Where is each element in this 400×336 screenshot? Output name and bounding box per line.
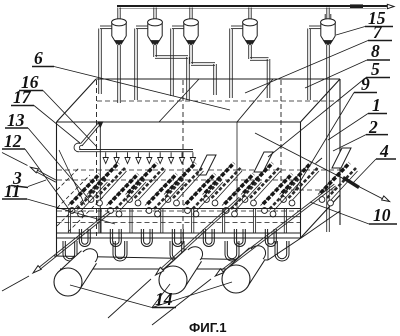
svg-text:9: 9 [361,74,370,94]
svg-text:13: 13 [7,110,25,130]
svg-text:8: 8 [371,41,380,61]
svg-text:5: 5 [371,59,380,79]
svg-text:6: 6 [34,48,43,68]
svg-text:10: 10 [373,205,391,225]
svg-text:17: 17 [13,87,32,107]
svg-text:1: 1 [372,95,381,115]
svg-text:12: 12 [4,131,22,151]
svg-text:11: 11 [4,181,21,201]
svg-text:ФИГ.1: ФИГ.1 [189,320,227,335]
svg-text:7: 7 [373,22,383,42]
svg-text:4: 4 [379,141,389,161]
